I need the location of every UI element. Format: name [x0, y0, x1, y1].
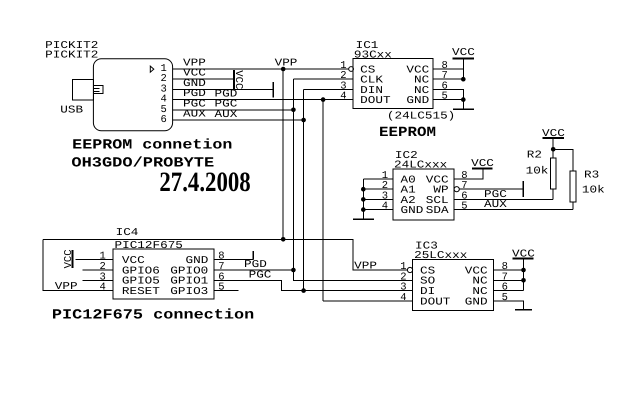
svg-text:AUX: AUX [484, 199, 508, 211]
wire node N1 PGC vertical bus [293, 79, 412, 280]
svg-text:VCC: VCC [471, 158, 494, 170]
svg-text:PGC: PGC [249, 269, 272, 281]
wire IC4 pin3 GPIO5 stub [83, 279, 114, 281]
wire IC4 pin8 GND stub [214, 259, 253, 261]
svg-text:6: 6 [160, 114, 166, 126]
wire R2 bottom [552, 189, 554, 199]
GND flag bar at pin3 [272, 82, 274, 98]
junction dot R2 R3 top [551, 147, 556, 152]
svg-text:27.4.2008: 27.4.2008 [159, 167, 250, 198]
resistor R2 body [550, 158, 556, 189]
svg-text:DOUT: DOUT [420, 296, 450, 308]
svg-text:GND: GND [465, 296, 488, 308]
svg-text:4: 4 [382, 201, 388, 213]
svg-text:(24LC515): (24LC515) [387, 111, 455, 123]
wire IC3 pin5 GND [494, 301, 524, 310]
svg-text:GND: GND [406, 95, 429, 107]
IC4 PIC12F675 body [113, 249, 214, 299]
junction dot IC2 pin2 tie [361, 187, 366, 192]
termination bar IC4 pin8 [252, 251, 254, 260]
svg-text:SDA: SDA [426, 205, 450, 217]
ground bar IC1 [453, 108, 474, 110]
USB plug symbol [93, 85, 103, 93]
power VCC symbol IC3 [512, 257, 533, 259]
svg-text:VCC: VCC [512, 249, 535, 261]
svg-text:R3: R3 [584, 169, 599, 181]
svg-text:24LCxxx: 24LCxxx [394, 159, 447, 171]
wire IC4 pin6 GPIO1 PGC to IC3 DI [214, 280, 413, 290]
wire VCC to IC1 pin8 pin7 [433, 59, 463, 80]
svg-text:5: 5 [461, 201, 467, 213]
IC1 93Cxx body [353, 59, 433, 109]
power VCC symbol IC2 [472, 167, 493, 169]
wire IC2 pins A0-GND tie vertical [363, 179, 393, 219]
svg-text:GPIO3: GPIO3 [170, 286, 208, 298]
svg-text:93Cxx: 93Cxx [354, 49, 392, 61]
junction dot AUX at pin6 row [301, 118, 306, 123]
svg-text:GND: GND [401, 205, 424, 217]
VCC flag bar at pin2 [233, 70, 235, 89]
junction dot IC1 pin5 [461, 97, 466, 102]
IC3 25LCxxx body [413, 260, 494, 311]
wire IC2 pin8 to VCC [454, 168, 483, 179]
junction dot VPP at pin1 row [281, 67, 286, 72]
wire IC2 pin6 SCL to R2 [454, 198, 553, 200]
wire VPP loop left to IC4 RESET [43, 239, 113, 290]
wire IC4 pin1 VCC [75, 259, 113, 261]
junction dot IC2 pin3 tie [361, 197, 366, 202]
junction dot IC4 pin7 on N1 [291, 268, 296, 273]
power VCC symbol R2R3 [542, 137, 564, 139]
junction dot IC3 pin8 [521, 268, 526, 273]
svg-text:PIC12F675: PIC12F675 [115, 240, 183, 252]
wire IC4 pin7 GPIO0 PGD [214, 269, 293, 271]
IC3 pin1 inverter bubble [407, 267, 412, 272]
IC2 24LCxxx body [393, 169, 454, 220]
wire VPP loop top [43, 239, 407, 270]
svg-text:AUX: AUX [183, 109, 207, 121]
wire VPP vertical bus [282, 69, 284, 239]
svg-text:10k: 10k [526, 165, 549, 177]
ground bar IC3 [515, 309, 532, 311]
wire IC2 pin1 A0 [363, 178, 393, 180]
wire IC1 pin2 CLK from node PGC [293, 78, 353, 80]
wire node N3 PGD vertical bus [323, 100, 413, 301]
junction dot N2 at IC3 DI wire [301, 288, 306, 293]
ground bar IC2 [353, 218, 374, 220]
junction dot PGC at pin5 row [291, 108, 296, 113]
wire PICKIT2 pin1 VPP to IC1 CS [173, 68, 349, 70]
svg-text:5: 5 [218, 282, 224, 294]
wire VCC to R2 R3 tops [553, 138, 573, 171]
junction dot IC1 pin7 [461, 77, 466, 82]
svg-text:RESET: RESET [122, 286, 160, 298]
VCC flag bar at IC4 pin1 [72, 250, 74, 268]
wire IC1 pin3 DIN from node AUX [304, 88, 353, 90]
svg-text:VPP: VPP [354, 260, 377, 272]
svg-text:R2: R2 [527, 149, 542, 161]
wire PICKIT2 pin6 AUX [173, 119, 304, 121]
svg-text:10k: 10k [582, 184, 605, 196]
junction dot IC3 pin7 [521, 278, 526, 283]
wire IC1 pin6 pin5 to ground [433, 89, 463, 109]
wire PICKIT2 pin2 VCC [173, 78, 234, 80]
svg-text:PIC12F675 connection: PIC12F675 connection [52, 307, 254, 323]
svg-text:VCC: VCC [63, 249, 75, 268]
pin-1 marker triangle [150, 66, 154, 72]
svg-text:EEPROM connetion: EEPROM connetion [72, 137, 232, 153]
svg-text:PICKIT2: PICKIT2 [45, 49, 98, 61]
svg-text:AUX: AUX [215, 109, 239, 121]
svg-text:VCC: VCC [452, 47, 475, 59]
power VCC symbol IC1 [453, 58, 475, 60]
svg-text:EEPROM: EEPROM [379, 125, 436, 141]
svg-text:VCC: VCC [542, 128, 565, 140]
svg-text:5: 5 [442, 91, 448, 103]
wire PICKIT2 pin3 GND [173, 88, 273, 90]
wire PICKIT2 pin5 PGC [173, 109, 294, 111]
resistor R3 body [570, 171, 576, 202]
svg-text:25LCxxx: 25LCxxx [414, 250, 467, 262]
svg-text:IC4: IC4 [116, 227, 139, 239]
svg-text:4: 4 [99, 282, 105, 294]
junction dot VPP loop [281, 237, 286, 242]
svg-text:4: 4 [340, 91, 346, 103]
wire R3 bottom [572, 202, 574, 210]
termination bar WP [522, 181, 524, 197]
wire IC2 pin5 SDA to R3 [454, 209, 573, 211]
svg-text:VPP: VPP [275, 57, 298, 69]
IC2 pin7 WP bubble [454, 187, 459, 192]
junction dot IC2 pin4 tie [361, 207, 366, 212]
wire IC2 pin7 WP [459, 188, 523, 190]
junction dot PGD at pin4 row [321, 97, 326, 102]
connector J1 PICKIT2 body [93, 59, 172, 131]
connector USB shell [72, 79, 93, 100]
wire IC4 pin2 GPIO6 stub [83, 269, 114, 271]
wire IC4 pin5 GPIO3 stub [214, 290, 239, 292]
wire PICKIT2 pin4 PGD to IC1 DOUT [173, 99, 353, 101]
svg-text:DOUT: DOUT [360, 95, 390, 107]
svg-text:VPP: VPP [55, 281, 78, 293]
IC1 pin1 inverter bubble [349, 67, 354, 72]
svg-text:5: 5 [502, 292, 508, 304]
svg-text:USB: USB [60, 104, 83, 116]
svg-text:4: 4 [400, 292, 406, 304]
wire VCC to IC3 pins 8 7 6 [494, 258, 524, 290]
svg-text:VCC: VCC [232, 70, 244, 89]
wire node N2 AUX vertical bus [303, 89, 305, 290]
